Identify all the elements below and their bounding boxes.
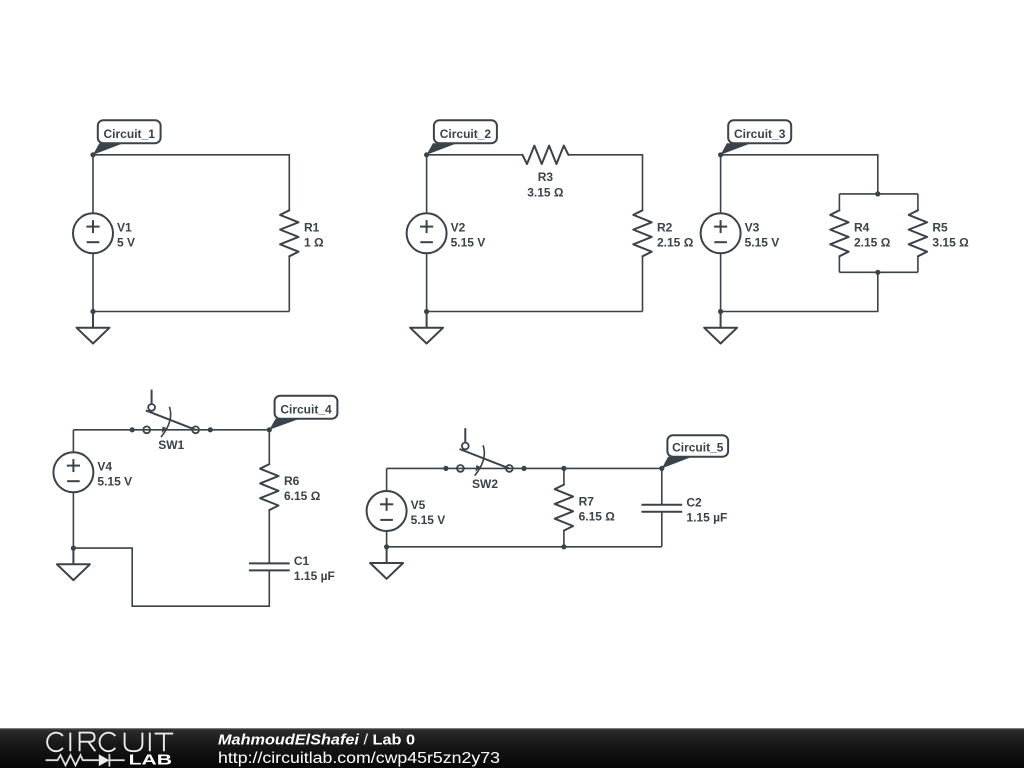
voltage source V5 <box>367 491 407 531</box>
wire C2 upper lead <box>661 468 663 504</box>
svg-text:Circuit_4: Circuit_4 <box>280 403 332 417</box>
node circuit2 bottom-left <box>424 309 429 314</box>
resistor R2 <box>633 210 651 256</box>
svg-text:5 V: 5 V <box>117 235 135 249</box>
flag pointer Circuit_5 <box>662 457 692 469</box>
svg-text:R7: R7 <box>579 495 595 509</box>
svg-text:3.15 Ω: 3.15 Ω <box>932 235 969 249</box>
switch SW1 actuator arc <box>161 407 171 437</box>
switch SW1 right terminal dot <box>208 427 213 432</box>
wire circuit5 left lower <box>386 531 388 547</box>
svg-text:http://circuitlab.com/cwp45r5z: http://circuitlab.com/cwp45r5zn2y73 <box>218 750 500 767</box>
flag pointer Circuit_2 <box>427 143 457 155</box>
wire circuit1 bottom <box>93 311 289 313</box>
flag pointer Circuit_1 <box>93 143 123 155</box>
node circuit3 top-left <box>718 152 723 157</box>
wire circuit3 lower rail <box>839 271 918 273</box>
wire circuit3 top <box>721 155 878 194</box>
svg-text:V2: V2 <box>451 220 466 234</box>
svg-text:V1: V1 <box>117 220 132 234</box>
switch SW1 terminal circles <box>143 404 199 433</box>
resistor R6 <box>260 464 278 510</box>
flag box Circuit_4 <box>275 396 338 419</box>
wire circuit5 bottom <box>387 546 662 548</box>
node R7 bottom junction <box>561 544 566 549</box>
svg-text:C1: C1 <box>294 554 310 568</box>
logo resistor squiggle and diode <box>46 754 125 767</box>
resistor R1 <box>280 210 298 256</box>
voltage source V4 <box>53 452 93 492</box>
ground circuit4 <box>57 548 90 580</box>
flag pointer Circuit_3 <box>721 143 751 155</box>
wire C2 lower lead <box>661 512 663 547</box>
wire circuit2 left upper <box>426 155 428 214</box>
CircuitLab logo word CIRCUIT (hand-drawn thin letters) <box>47 733 173 752</box>
switch SW2 right terminal dot <box>521 466 526 471</box>
ground circuit2 <box>410 312 443 344</box>
flag box Circuit_5 <box>667 435 728 457</box>
resistor R3 <box>522 146 568 164</box>
wire circuit1 right lower <box>288 256 290 311</box>
wire R5 upper lead <box>917 194 919 210</box>
svg-text:R6: R6 <box>284 474 300 488</box>
node circuit3 bottom-left <box>718 309 723 314</box>
svg-text:V5: V5 <box>411 498 426 512</box>
node circuit3 lower junction <box>875 270 880 275</box>
svg-text:3.15 Ω: 3.15 Ω <box>527 186 564 200</box>
svg-text:SW2: SW2 <box>472 477 498 491</box>
svg-text:Circuit_2: Circuit_2 <box>440 127 492 141</box>
node circuit1 top-left <box>90 152 95 157</box>
wire circuit5 left upper <box>386 468 388 491</box>
wire circuit3 left lower <box>720 253 722 311</box>
svg-text:R2: R2 <box>657 220 673 234</box>
wire circuit1 left upper <box>92 155 94 214</box>
voltage source V1 <box>73 213 113 253</box>
node R7 top junction <box>561 466 566 471</box>
flag pointer Circuit_4 <box>269 419 299 430</box>
ground circuit3 <box>704 312 737 344</box>
switch SW1 left terminal dot <box>130 427 135 432</box>
node circuit1 bottom-left <box>90 309 95 314</box>
wire circuit1 top + right upper <box>93 155 289 211</box>
node C2 top junction <box>659 466 664 471</box>
svg-text:R3: R3 <box>538 170 554 184</box>
svg-text:Circuit_3: Circuit_3 <box>734 127 786 141</box>
svg-text:V4: V4 <box>97 459 112 473</box>
node circuit2 top-left <box>424 152 429 157</box>
resistor R5 <box>909 210 927 256</box>
wire R5 lower lead <box>917 256 919 272</box>
wire circuit2 top right segment <box>568 155 642 211</box>
svg-text:R5: R5 <box>932 220 948 234</box>
wire R4 lower lead <box>838 256 840 272</box>
wire circuit2 left lower <box>426 253 428 311</box>
svg-text:MahmoudElShafei / Lab 0: MahmoudElShafei / Lab 0 <box>218 732 415 749</box>
footer bar background <box>0 728 1024 768</box>
voltage source V2 <box>407 213 447 253</box>
svg-text:1.15 µF: 1.15 µF <box>686 510 727 524</box>
switch SW2 left terminal dot <box>443 466 448 471</box>
svg-text:1 Ω: 1 Ω <box>304 235 324 249</box>
svg-text:6.15 Ω: 6.15 Ω <box>284 489 321 503</box>
wire circuit2 bottom <box>427 311 643 313</box>
wire circuit4 top <box>73 429 269 431</box>
svg-text:2.15 Ω: 2.15 Ω <box>854 235 891 249</box>
svg-text:LAB: LAB <box>129 753 172 768</box>
switch SW1 blade <box>146 410 196 429</box>
switch SW1 top throw stub <box>151 390 153 405</box>
wire R7 upper lead <box>563 468 565 484</box>
wire circuit2 top left segment <box>427 154 523 156</box>
wire R7 lower lead <box>563 531 565 547</box>
node circuit3 upper junction <box>875 191 880 196</box>
wire circuit5 top <box>387 467 662 469</box>
wire circuit4 bottom path <box>73 548 269 606</box>
node circuit5 bottom-left <box>384 544 389 549</box>
svg-text:5.15 V: 5.15 V <box>451 235 486 249</box>
switch SW2 actuator arc <box>475 445 485 475</box>
wire circuit4 left upper <box>72 430 74 453</box>
svg-text:6.15 Ω: 6.15 Ω <box>579 510 616 524</box>
flag box Circuit_2 <box>434 120 497 143</box>
svg-text:5.15 V: 5.15 V <box>745 235 780 249</box>
switch SW2 top throw stub <box>464 428 466 443</box>
svg-text:R1: R1 <box>304 220 320 234</box>
wire R4 upper lead <box>838 194 840 210</box>
wire circuit3 upper rail <box>839 193 918 195</box>
flag box Circuit_1 <box>98 120 161 143</box>
svg-text:2.15 Ω: 2.15 Ω <box>657 235 694 249</box>
ground circuit5 <box>370 547 403 579</box>
switch SW2 terminal circles <box>457 443 513 472</box>
voltage source V3 <box>701 213 741 253</box>
resistor R7 <box>555 485 573 531</box>
svg-text:R4: R4 <box>854 220 870 234</box>
node circuit4 bottom-left <box>71 546 76 551</box>
wire circuit1 left lower <box>92 253 94 311</box>
svg-text:5.15 V: 5.15 V <box>97 474 132 488</box>
switch SW2 blade <box>460 449 510 468</box>
wire R6 to C1 <box>268 510 270 563</box>
svg-text:V3: V3 <box>745 220 760 234</box>
ground circuit1 <box>77 312 110 344</box>
capacitor C1 <box>249 563 290 570</box>
wire circuit2 right lower <box>642 256 644 311</box>
node circuit4 top-right <box>267 427 272 432</box>
wire circuit3 left upper <box>720 155 722 214</box>
svg-text:SW1: SW1 <box>158 438 184 452</box>
resistor R4 <box>830 210 848 256</box>
wire circuit4 left lower <box>72 492 74 548</box>
wire circuit3 bottom <box>721 272 878 311</box>
flag box Circuit_3 <box>728 120 791 143</box>
svg-text:1.15 µF: 1.15 µF <box>294 569 335 583</box>
svg-text:Circuit_5: Circuit_5 <box>672 441 724 455</box>
wire R6 upper lead <box>268 430 270 464</box>
svg-text:5.15 V: 5.15 V <box>411 513 446 527</box>
capacitor C2 <box>641 505 682 512</box>
svg-text:Circuit_1: Circuit_1 <box>104 127 156 141</box>
svg-text:C2: C2 <box>686 495 702 509</box>
